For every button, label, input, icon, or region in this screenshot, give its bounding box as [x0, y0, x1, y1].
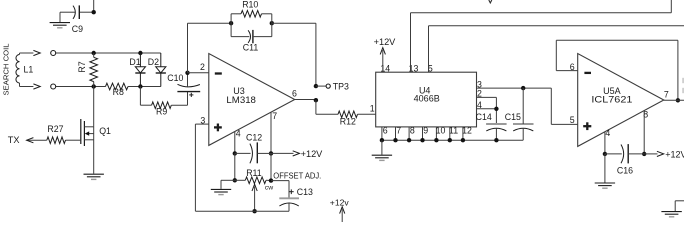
wire — [188, 72, 209, 74]
inductor L1 — [16, 55, 20, 84]
wire pin5 rail — [429, 26, 684, 72]
pin 3 label — [200, 116, 205, 126]
resistor R10 — [231, 11, 272, 18]
minus input U5A — [584, 72, 591, 74]
svg-text:ICL7621: ICL7621 — [591, 94, 632, 104]
wire — [221, 180, 235, 189]
label ICL7621 — [591, 94, 632, 104]
terminal circle bottom — [51, 84, 56, 89]
label R7 — [77, 61, 87, 72]
capacitor C9 — [60, 5, 79, 19]
plus input U5A — [583, 122, 591, 130]
svg-text:C10: C10 — [167, 73, 183, 83]
pin 7 label — [272, 111, 277, 121]
pin 9 stub — [422, 127, 424, 140]
pin 5 label — [570, 115, 575, 125]
wire — [316, 85, 326, 87]
svg-text:SEARCH COIL: SEARCH COIL — [2, 44, 11, 96]
capacitor C14 — [486, 124, 507, 140]
svg-text:+12v: +12v — [330, 197, 350, 207]
junction — [92, 10, 96, 14]
wire — [664, 99, 684, 101]
svg-text:6: 6 — [383, 126, 388, 136]
junction — [676, 98, 680, 102]
svg-text:C12: C12 — [246, 133, 262, 143]
wire — [234, 153, 236, 180]
svg-text:6: 6 — [292, 89, 297, 99]
svg-text:10: 10 — [436, 126, 446, 136]
label C14 — [476, 112, 492, 122]
wire — [551, 88, 577, 124]
svg-text:+12V: +12V — [374, 37, 397, 47]
junction — [233, 151, 237, 155]
wire — [139, 87, 141, 106]
resistor R11 — [235, 177, 271, 184]
junction — [185, 71, 189, 75]
pin 10 label — [436, 126, 446, 136]
label C9 — [72, 24, 83, 34]
pin 5 label — [428, 63, 433, 73]
wire — [675, 201, 684, 212]
wire — [93, 87, 95, 127]
pin 4 label — [605, 128, 610, 138]
diode D2 — [156, 53, 166, 87]
pin 1 label — [370, 103, 375, 113]
wire — [128, 86, 161, 88]
label C11 — [243, 42, 259, 52]
junction — [407, 138, 411, 142]
svg-text:TP3: TP3 — [333, 81, 349, 91]
label C13 — [297, 187, 313, 197]
label C16 — [617, 165, 633, 175]
wire pin13 rail — [411, 0, 672, 72]
pin 12 stub — [462, 127, 464, 140]
power +12V arrow — [293, 151, 300, 156]
pin 3 label — [477, 79, 482, 89]
wire pin3 — [477, 87, 552, 89]
pin 6 stub — [381, 127, 383, 140]
label LM318 — [226, 95, 256, 105]
pin 14 label — [380, 63, 390, 73]
wire ground bus — [382, 139, 523, 141]
junction — [233, 178, 237, 182]
svg-text:5: 5 — [570, 115, 575, 125]
pin 4 label — [236, 128, 241, 138]
svg-text:R11: R11 — [246, 168, 262, 178]
wire — [604, 154, 606, 183]
junction — [269, 151, 273, 155]
junction — [380, 138, 384, 142]
pin 9 label — [423, 126, 428, 136]
capacitor C10 — [177, 73, 200, 92]
pin 8 label — [643, 109, 648, 119]
op-amp U5A — [578, 54, 664, 147]
wire — [20, 53, 34, 55]
ground — [595, 183, 615, 188]
pin 7 stub — [395, 127, 397, 140]
clipped label fragment right — [682, 78, 684, 93]
svg-text:R12: R12 — [340, 116, 356, 126]
svg-text:4: 4 — [236, 128, 241, 138]
capacitor C12 — [235, 142, 271, 163]
label U5A — [603, 86, 621, 96]
label R12 — [340, 116, 356, 126]
svg-text:11: 11 — [449, 126, 458, 136]
wire — [270, 112, 272, 153]
svg-text:C13: C13 — [297, 187, 313, 197]
junction — [461, 138, 465, 142]
svg-text:2: 2 — [200, 62, 205, 72]
pin 6 label — [292, 89, 297, 99]
label U4 — [419, 85, 431, 95]
junction — [138, 51, 142, 55]
wire — [270, 153, 272, 180]
ground — [661, 212, 681, 217]
wire — [231, 14, 272, 37]
label D1 — [129, 57, 140, 67]
junction — [314, 98, 318, 102]
label U3 — [233, 86, 245, 96]
label 4066B — [414, 93, 440, 103]
label C10 — [167, 73, 183, 83]
resistor R12 — [338, 111, 358, 118]
signal arrow TX — [27, 138, 34, 143]
wire — [66, 139, 81, 141]
wire — [316, 100, 338, 114]
op-amp U3 — [209, 54, 295, 146]
wire — [644, 153, 657, 155]
wire — [604, 132, 606, 154]
svg-text:R27: R27 — [47, 124, 63, 134]
svg-text:D2: D2 — [148, 57, 159, 67]
label R9 — [156, 106, 167, 116]
svg-text:C16: C16 — [617, 165, 633, 175]
svg-text:8: 8 — [410, 126, 415, 136]
ground — [84, 174, 104, 179]
svg-text:7: 7 — [396, 126, 401, 136]
label TX — [8, 135, 20, 145]
wire pin4 — [477, 108, 497, 110]
svg-text:+12V: +12V — [301, 149, 324, 159]
label Q1 — [99, 126, 111, 136]
wire pin2 — [477, 97, 497, 124]
capacitor C11 — [231, 30, 272, 43]
junction — [314, 84, 318, 88]
pin 12 label — [462, 126, 472, 136]
svg-text:7: 7 — [272, 111, 277, 121]
transistor Q1 — [81, 119, 94, 174]
wire — [56, 52, 161, 54]
svg-text:LM318: LM318 — [226, 95, 256, 105]
label R27 — [47, 124, 63, 134]
polarity + C10 — [189, 93, 193, 97]
wire — [271, 181, 289, 199]
svg-text:7: 7 — [664, 89, 669, 99]
ground — [50, 23, 70, 28]
junction — [270, 21, 274, 25]
clipped arrow fragment top — [489, 0, 492, 3]
label +12v — [330, 197, 350, 207]
svg-text:14: 14 — [380, 63, 390, 73]
pin 7 label — [396, 126, 401, 136]
capacitor C15 — [513, 88, 534, 140]
pin 6 label — [383, 126, 388, 136]
svg-text:R10: R10 — [242, 0, 258, 10]
junction — [494, 138, 498, 142]
pin 2 label — [477, 89, 482, 99]
terminal arrow top — [33, 50, 40, 55]
junction — [138, 84, 142, 88]
net label SEARCH COIL — [2, 44, 11, 96]
svg-text:OFFSET ADJ.: OFFSET ADJ. — [273, 171, 321, 180]
IC U4 4066B — [376, 72, 477, 127]
label OFFSET ADJ. — [273, 171, 321, 180]
pin 13 label — [409, 63, 419, 73]
wire — [295, 99, 316, 101]
label R11 — [246, 168, 262, 178]
svg-text:4066B: 4066B — [414, 93, 440, 103]
wire — [56, 86, 106, 88]
svg-text:C15: C15 — [505, 112, 521, 122]
junction — [420, 138, 424, 142]
junction — [434, 138, 438, 142]
svg-text:9: 9 — [423, 126, 428, 136]
wire — [187, 92, 189, 106]
wire — [271, 152, 294, 154]
junction — [92, 84, 96, 88]
wire — [195, 210, 289, 212]
test point TP3 — [326, 84, 330, 88]
wire — [381, 140, 383, 155]
plus input U3 — [214, 124, 222, 132]
wire — [195, 124, 208, 211]
ground — [372, 155, 392, 160]
wire — [188, 23, 232, 73]
label L1 — [24, 65, 34, 75]
svg-text:4: 4 — [605, 128, 610, 138]
label D2 — [148, 57, 159, 67]
svg-text:cw: cw — [265, 184, 273, 191]
junction — [494, 107, 498, 111]
svg-text:D1: D1 — [129, 57, 140, 67]
pin 8 stub — [408, 127, 410, 140]
svg-text:R8: R8 — [113, 87, 124, 97]
terminal arrow bottom — [33, 84, 40, 89]
label +12V — [301, 149, 324, 159]
junction — [521, 86, 525, 90]
pin 10 stub — [435, 127, 437, 140]
ground — [211, 189, 231, 194]
junction — [393, 138, 397, 142]
minus input U3 — [215, 72, 222, 74]
label cw — [265, 184, 273, 191]
svg-text:C11: C11 — [243, 42, 259, 52]
wire — [59, 12, 61, 22]
svg-text:Q1: Q1 — [99, 126, 111, 136]
power +12V arrow — [657, 151, 664, 156]
svg-text:TX: TX — [8, 135, 20, 145]
junction — [92, 51, 96, 55]
junction — [229, 21, 233, 25]
junction — [603, 152, 607, 156]
svg-text:L1: L1 — [24, 65, 34, 75]
pin 11 stub — [449, 127, 451, 140]
label C15 — [505, 112, 521, 122]
resistor R9 — [140, 102, 187, 109]
pin 7 label — [664, 89, 669, 99]
svg-text:C14: C14 — [476, 112, 492, 122]
pin 6 label — [570, 62, 575, 72]
wiper arrow R11 — [252, 184, 257, 211]
svg-text:12: 12 — [462, 126, 472, 136]
diode D1 — [135, 53, 145, 87]
svg-text:R7: R7 — [77, 61, 87, 72]
pin 11 label — [449, 126, 458, 136]
label +12V — [374, 37, 397, 47]
label C12 — [246, 133, 262, 143]
wire — [80, 0, 94, 12]
wire — [272, 23, 316, 86]
pin 4 label — [477, 100, 482, 110]
svg-text:1: 1 — [370, 103, 375, 113]
capacitor C13 — [279, 198, 299, 211]
wire — [643, 111, 645, 154]
wire — [358, 113, 376, 115]
label +12V — [665, 149, 684, 159]
polarity + C13 — [289, 189, 294, 194]
pin 8 label — [410, 126, 415, 136]
wire — [556, 40, 678, 100]
junction — [642, 152, 646, 156]
wire — [27, 139, 47, 141]
wire — [234, 132, 236, 154]
resistor R27 — [47, 137, 66, 144]
power +12v arrow — [340, 207, 345, 222]
resistor R7 — [90, 53, 98, 87]
label TP3 — [333, 81, 349, 91]
junction — [252, 209, 256, 213]
junction — [448, 138, 452, 142]
label R8 — [113, 87, 124, 97]
power +12V arrow — [380, 48, 385, 73]
svg-text:C9: C9 — [72, 24, 83, 34]
pin 2 label — [200, 62, 205, 72]
wire — [20, 83, 34, 87]
capacitor C16 — [605, 144, 644, 163]
label R10 — [242, 0, 258, 10]
resistor R8 — [106, 83, 129, 90]
junction — [269, 178, 273, 182]
svg-text:+12V: +12V — [665, 149, 684, 159]
terminal circle top — [51, 51, 56, 56]
svg-text:R9: R9 — [156, 106, 167, 116]
